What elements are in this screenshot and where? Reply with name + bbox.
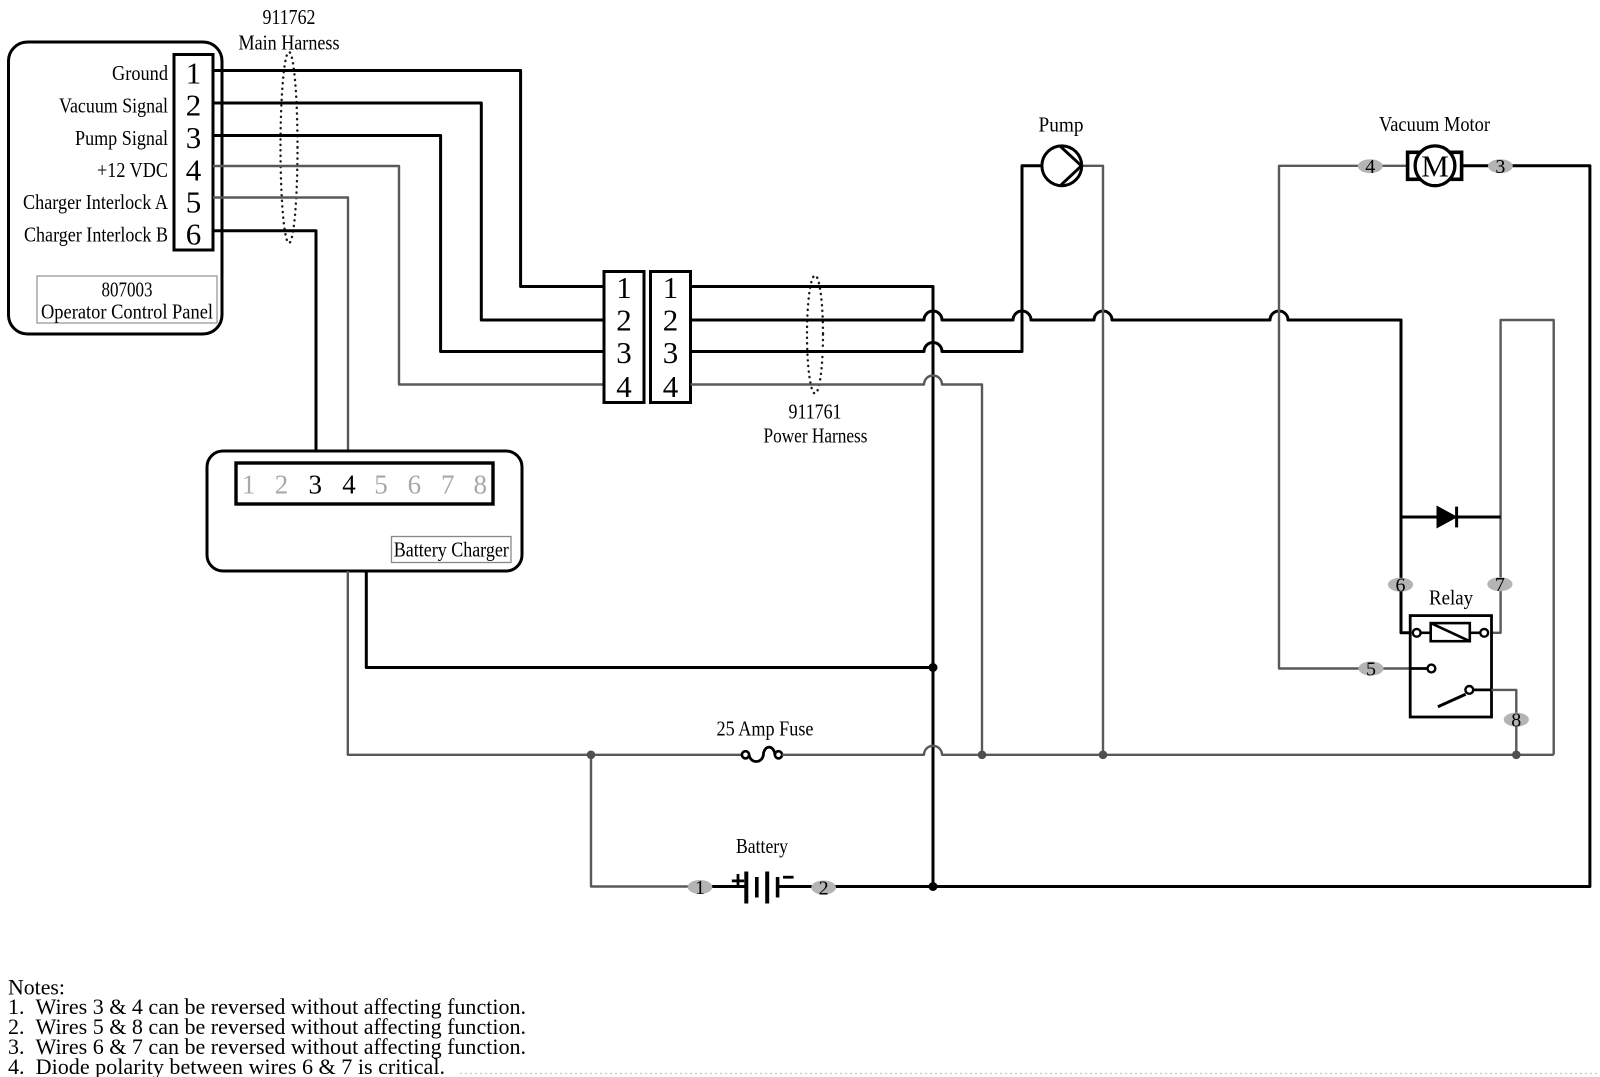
svg-text:3: 3: [1495, 156, 1505, 178]
svg-text:2: 2: [186, 88, 202, 123]
svg-text:Pump Signal: Pump Signal: [75, 126, 168, 150]
svg-text:1: 1: [242, 469, 256, 499]
svg-text:3: 3: [186, 120, 202, 155]
svg-text:2: 2: [663, 302, 679, 337]
wire battery oval1 to plates: [712, 885, 745, 888]
svg-text:Pump: Pump: [1039, 113, 1084, 137]
svg-text:6: 6: [186, 217, 202, 252]
relay terminal oval 5: [1358, 658, 1383, 680]
wire motor terminal 3 to battery minus via right side: [779, 166, 1590, 887]
svg-text:4. Diode polarity between wir: 4. Diode polarity between wires 6 & 7 is…: [8, 1055, 445, 1077]
svg-text:5: 5: [186, 184, 202, 219]
main harness dotted ellipse: [281, 52, 298, 243]
svg-text:Operator Control Panel: Operator Control Panel: [41, 300, 213, 324]
svg-text:8: 8: [1511, 709, 1521, 731]
svg-text:807003: 807003: [102, 278, 153, 302]
wire panel pin2 to connector pin2: [213, 103, 604, 320]
svg-text:6: 6: [1396, 575, 1406, 597]
svg-text:1: 1: [186, 55, 202, 90]
junction dot pump right on fuse line: [1099, 751, 1108, 760]
connector P2 pin numbers: [663, 270, 679, 404]
svg-text:4: 4: [616, 369, 632, 404]
svg-text:M: M: [1421, 148, 1449, 183]
diode D1 (between wires 6 and 7): [1401, 506, 1501, 527]
wire +12VDC: P2 pin4 to fuse line (gray, hop at 933): [691, 376, 983, 755]
relay terminal oval 7: [1487, 574, 1512, 596]
svg-text:7: 7: [441, 469, 455, 499]
svg-text:Ground: Ground: [112, 61, 168, 85]
connector J1 body: [174, 55, 213, 251]
svg-text:Charger Interlock B: Charger Interlock B: [24, 222, 168, 246]
wire ground net: P2 pin1 right, down to battery line: [691, 287, 934, 887]
wire relay pin 8 to fuse line (gray): [1492, 690, 1517, 755]
svg-text:Vacuum Motor: Vacuum Motor: [1379, 112, 1490, 136]
svg-text:7: 7: [1495, 574, 1505, 596]
wire panel pin6 to charger pin3: [213, 231, 316, 463]
relay switch arm and output pin 8: [1438, 686, 1492, 707]
svg-text:3: 3: [308, 469, 322, 499]
relay terminal oval 6: [1388, 575, 1413, 597]
svg-text:4: 4: [186, 152, 202, 187]
power harness 911761 label: [764, 399, 868, 447]
svg-text:6: 6: [408, 469, 422, 499]
svg-text:Vacuum Signal: Vacuum Signal: [59, 93, 168, 117]
svg-text:2: 2: [616, 302, 632, 337]
svg-text:25 Amp Fuse: 25 Amp Fuse: [717, 716, 814, 740]
battery terminal oval 2: [811, 877, 836, 899]
svg-text:3: 3: [616, 335, 632, 370]
relay switch contact (pin 5 input): [1410, 665, 1435, 673]
svg-text:Charger Interlock A: Charger Interlock A: [23, 190, 169, 214]
svg-text:4: 4: [1365, 156, 1375, 178]
connector P2 body (right 4-pin): [651, 272, 691, 403]
wire fuse line to battery plus (gray): [591, 755, 712, 887]
charger connector strip: [236, 463, 493, 504]
panel part number box 807003: [37, 276, 217, 324]
wire panel pin5 to charger pin4 (gray): [213, 198, 348, 464]
battery terminal oval 1: [688, 877, 713, 899]
charger strip pin numbers 1-8: [242, 469, 487, 499]
junction dot relay pin8 on fuse line: [1512, 751, 1521, 760]
motor terminal oval 4: [1358, 156, 1383, 178]
fuse line wire (gray, hop at 933): [782, 746, 1554, 755]
wire relay terminal 7 to fuse line via top loop (gray): [1488, 320, 1554, 755]
relay terminal oval 8: [1504, 709, 1529, 731]
svg-text:1: 1: [616, 270, 632, 305]
junction dot ground/battery: [929, 882, 938, 891]
wire panel pin4 to connector pin4 (gray): [213, 166, 604, 385]
connector P1 pin numbers: [616, 270, 632, 404]
svg-text:5: 5: [1366, 658, 1376, 680]
svg-text:2: 2: [275, 469, 289, 499]
svg-text:Battery: Battery: [736, 834, 788, 858]
junction dot battery feed on fuse line: [587, 751, 596, 760]
wire panel pin1 to connector pin1: [213, 71, 604, 287]
junction dot +12VDC on fuse line: [978, 751, 987, 760]
wire pump signal: P2 pin3 to pump left (hop at 933): [691, 166, 1043, 352]
svg-text:4: 4: [663, 369, 679, 404]
svg-text:1: 1: [695, 877, 705, 899]
relay K1 box: [1410, 616, 1491, 717]
svg-text:Relay: Relay: [1429, 586, 1473, 610]
wire charger to fuse line (gray): [348, 571, 742, 755]
svg-text:Power Harness: Power Harness: [764, 424, 868, 448]
battery BT1 symbol: [732, 872, 794, 904]
main harness 911762 label: [239, 5, 340, 55]
svg-text:Battery Charger: Battery Charger: [394, 537, 509, 561]
wire pump right to fuse line (gray): [1082, 166, 1103, 755]
svg-text:2: 2: [819, 877, 829, 899]
svg-text:8: 8: [474, 469, 488, 499]
battery charger label box: [392, 537, 512, 563]
operator control panel U1 outline: [9, 42, 223, 334]
power harness 911761 dotted ellipse: [807, 276, 823, 394]
svg-text:3: 3: [663, 335, 679, 370]
notes text block: [8, 975, 526, 1077]
junction dot charger/ground: [929, 663, 938, 672]
svg-text:5: 5: [374, 469, 388, 499]
wire charger to ground net: [366, 571, 933, 668]
motor terminal oval 3: [1488, 156, 1513, 178]
wire vacuum signal: P2 pin2 to relay terminal 6 (hops at 933,1022,1103,1279): [691, 311, 1413, 633]
vacuum motor M1 symbol: [1408, 146, 1462, 186]
svg-text:Main Harness: Main Harness: [239, 31, 340, 55]
wire panel pin3 to connector pin3: [213, 136, 604, 352]
pump symbol P1: [1042, 146, 1082, 186]
connector P1 body (left 4-pin): [604, 272, 644, 403]
wire motor terminal 4 to relay terminal 5 (gray): [1279, 166, 1410, 669]
fuse F1 symbol: [742, 747, 782, 761]
svg-text:4: 4: [342, 469, 356, 499]
svg-text:911761: 911761: [789, 399, 842, 423]
svg-text:911762: 911762: [263, 5, 316, 29]
svg-text:1: 1: [663, 270, 679, 305]
battery charger box: [207, 451, 522, 571]
svg-text:+12 VDC: +12 VDC: [97, 158, 168, 182]
relay coil: [1413, 623, 1488, 641]
faint scan artifact line bottom right: [460, 1073, 1600, 1075]
